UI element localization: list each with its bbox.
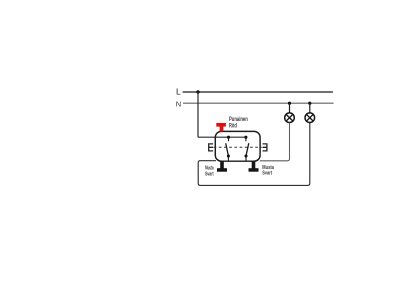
svg-text:Röd: Röd <box>229 123 237 129</box>
svg-text:Punainen: Punainen <box>229 117 248 123</box>
svg-text:Svart: Svart <box>205 171 214 177</box>
svg-text:Svart: Svart <box>262 171 272 177</box>
svg-text:N: N <box>176 100 181 109</box>
svg-text:L: L <box>176 87 181 97</box>
